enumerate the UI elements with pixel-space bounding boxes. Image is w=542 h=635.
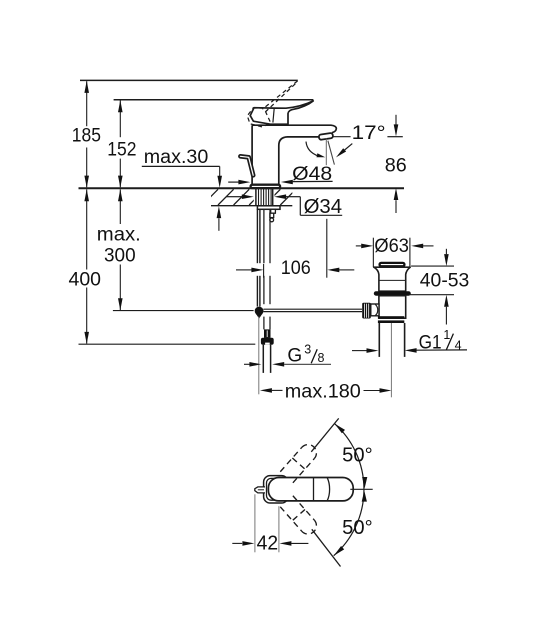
ball joint of pop-up linkage: [255, 307, 264, 316]
drain centerline: [390, 323, 392, 397]
dim G1-1/4 right arrow: [405, 348, 417, 353]
dim 42 ext lines: [254, 494, 256, 552]
svg-text:17°: 17°: [352, 123, 386, 144]
handle knob inner edge: [273, 108, 274, 122]
top view small arrow down at centerline: [362, 491, 367, 502]
dim 106 ext line right: [326, 219, 328, 278]
top view lever: [268, 478, 353, 501]
dim 40-53 bottom ext line: [409, 294, 454, 296]
dim G3/8 right arrow: [272, 362, 284, 367]
pop-up vertical rod: [256, 209, 258, 263]
svg-text:50°: 50°: [342, 517, 373, 539]
dim 106 left arrow: [236, 269, 252, 271]
svg-text:Ø48: Ø48: [292, 164, 332, 185]
deck hatching: [202, 189, 327, 205]
extension line, raised-lever top level (185 ref): [80, 79, 298, 81]
svg-text:400: 400: [69, 269, 102, 290]
top view body outer: [264, 476, 289, 503]
pop-up rod guide blocks: [271, 209, 276, 213]
top view lever divider: [313, 478, 315, 501]
dim 400 line: [86, 189, 88, 269]
top view body inner: [267, 478, 286, 500]
top view radial line lower: [312, 529, 341, 566]
faucet base flange: [251, 185, 281, 188]
top view dashed lever rotated down: [280, 496, 320, 538]
top view arc arrow upper: [335, 424, 346, 434]
dim max300 line: [119, 189, 121, 224]
svg-text:Ø34: Ø34: [304, 196, 343, 218]
shank locknut: [257, 206, 280, 210]
hose B tube end: [262, 345, 264, 373]
dim 185 bottom arrow: [84, 176, 89, 188]
dim O34 left arrow: [226, 196, 242, 198]
dim max30 leader underline: [142, 165, 220, 167]
svg-text:max.: max.: [97, 225, 141, 246]
dim 400 bottom arrow: [84, 332, 89, 344]
svg-text:1: 1: [443, 328, 450, 342]
dim 40-53 top arrow: [445, 249, 447, 254]
17deg leader arrow: [345, 144, 353, 150]
pop-up pull rod knob: [240, 156, 253, 175]
dim 152 line: [119, 101, 121, 138]
dim 42 left arrow: [232, 542, 242, 544]
svg-text:106: 106: [281, 258, 311, 279]
dim 42 right arrow: [279, 541, 291, 546]
supply hose upper part: [263, 209, 265, 263]
dim O48 left arrow: [228, 181, 238, 183]
svg-text:86: 86: [385, 156, 407, 177]
svg-text:max.180: max.180: [285, 382, 361, 403]
drain plug top: [380, 263, 405, 266]
reference line below ball joint: [258, 317, 260, 395]
dim max300 top arrow: [118, 189, 123, 201]
dim 185 line: [86, 81, 88, 126]
pop-up horizontal rod: [264, 308, 363, 310]
top view dashed lever rotated up: [280, 441, 320, 483]
top view swing arc: [334, 424, 364, 556]
hose B nut (G3/8): [261, 338, 274, 345]
17deg slanted stream line: [328, 141, 335, 165]
dim max300 ext line at ball joint level: [113, 310, 254, 312]
dim 86 top arrow: [395, 115, 397, 125]
svg-text:8: 8: [318, 351, 325, 365]
handle raised dashed edge 2: [264, 84, 295, 113]
dim G1-1/4 left arrow: [352, 350, 367, 352]
dim 40-53 bottom arrow: [444, 295, 449, 307]
faucet body with spout: [252, 125, 336, 186]
dim O34 right arrow: [274, 194, 286, 199]
17deg ref line at outlet level: [332, 136, 350, 138]
dim 106 right arrow: [327, 268, 339, 273]
svg-text:3: 3: [304, 343, 311, 357]
dim 40-53 top ext line: [411, 265, 454, 267]
svg-text:Ø63: Ø63: [374, 236, 409, 257]
handle lever solid: [250, 101, 313, 124]
drain O-ring: [374, 291, 411, 296]
drain knob stem: [371, 304, 379, 316]
17deg arc: [306, 142, 319, 157]
dim max300 bottom arrow: [118, 298, 123, 310]
dim G3/8 left arrow: [244, 363, 250, 365]
dim max30 arrow to deck top: [217, 176, 222, 188]
svg-text:G: G: [287, 346, 302, 367]
dim max30 arrow to deck bottom: [217, 206, 222, 218]
top view radial line upper: [311, 418, 338, 451]
top view lever endcap joint: [327, 478, 329, 501]
extension line, lever top level (152 ref): [114, 99, 314, 101]
svg-text:300: 300: [104, 246, 136, 267]
top view small arrow up at centerline: [362, 477, 367, 488]
17deg vertical reference line: [325, 138, 327, 165]
svg-text:40-53: 40-53: [420, 270, 470, 291]
dim O63 ext lines: [372, 238, 374, 267]
threaded shank: [255, 188, 257, 205]
top view arc arrow lower: [334, 546, 345, 556]
handle raised dashed knob: [247, 108, 270, 127]
deck / counter top line: [79, 187, 405, 189]
drain knurled knob: [362, 303, 371, 319]
svg-text:max.30: max.30: [144, 147, 209, 168]
drain junction flange: [378, 316, 404, 318]
svg-text:42: 42: [257, 533, 279, 555]
drain flange and upper body: [374, 267, 410, 291]
top view centerline tick: [350, 488, 372, 490]
drain lower body: [379, 296, 406, 319]
dim 86 bottom arrow: [394, 188, 399, 200]
faucet aerator (17deg outlet): [319, 133, 334, 140]
svg-text:185: 185: [72, 125, 101, 146]
dim 152 top arrow: [118, 100, 123, 112]
dim 185 top arrow: [84, 81, 89, 93]
dim 152 bottom arrow: [118, 176, 123, 188]
svg-text:152: 152: [107, 140, 136, 161]
dim max180 right arrow: [364, 390, 380, 392]
dim O63 left arrow: [356, 245, 362, 247]
dim 400 ext line at hose end level: [79, 343, 256, 345]
drain tailpiece (G1 1/4): [378, 323, 380, 357]
dim max180 left arrow: [260, 388, 272, 393]
dim O34 label box: [299, 197, 301, 216]
dim O48 right arrow: [281, 180, 293, 185]
svg-text:50°: 50°: [342, 445, 373, 467]
svg-text:G1: G1: [419, 332, 442, 353]
dim 106 ext line left: [263, 264, 265, 278]
dim max30 drop line: [219, 166, 221, 176]
dim 400 top arrow: [84, 189, 89, 201]
handle raised dashed edge 1: [262, 81, 297, 109]
svg-text:4: 4: [455, 339, 462, 353]
top view left tab (pop-up rod): [255, 487, 265, 493]
hose B connector block: [264, 329, 271, 338]
deck cross-section bottom line: [211, 205, 292, 207]
dim O63 right arrow: [411, 244, 423, 249]
